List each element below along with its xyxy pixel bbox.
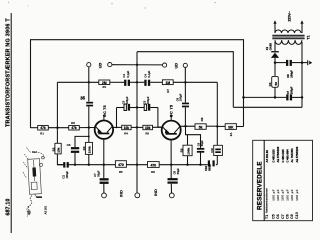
svg-text:100µF: 100µF	[146, 96, 150, 104]
svg-text:TRANSISTORFORSTÆRKER NG 3906: TRANSISTORFORSTÆRKER NG 3906 T	[5, 18, 11, 127]
svg-text:C7: C7	[281, 214, 285, 219]
junction: fuse wire / feed rail	[216, 125, 218, 127]
svg-text:C9: C9	[290, 214, 294, 219]
svg-text:AL 7847/64: AL 7847/64	[290, 148, 294, 163]
svg-text:470: 470	[118, 163, 124, 167]
svg-text:100µF: 100µF	[125, 96, 129, 104]
fuse SIK	[225, 124, 236, 137]
svg-text:47k: 47k	[71, 126, 77, 130]
svg-text:R7: R7	[166, 89, 170, 93]
wire: PSU bus y=97.4	[244, 96, 287, 98]
svg-text:R8: R8	[200, 117, 204, 121]
svg-text:C10: C10	[210, 147, 214, 152]
svg-text:100k: 100k	[187, 148, 191, 155]
svg-text:C3: C3	[67, 143, 71, 147]
capacitor C5 b	[143, 96, 151, 110]
svg-text:OC 75: OC 75	[103, 105, 107, 117]
svg-text:100 µF: 100 µF	[271, 189, 275, 201]
capacitor C4 b	[143, 70, 151, 86]
svg-text:C5: C5	[121, 100, 125, 104]
junction: R9 / PSU bus	[274, 96, 277, 99]
input link wire y=64.8	[112, 64, 163, 66]
svg-text:C5: C5	[143, 100, 147, 104]
svg-text:R9: R9	[179, 148, 183, 152]
svg-text:C10: C10	[204, 165, 208, 170]
svg-text:100 µF: 100 µF	[281, 189, 285, 201]
input terminal 1a	[87, 63, 91, 67]
capacitor C6	[175, 93, 189, 107]
capacitor (right of R24)	[196, 140, 204, 153]
svg-text:RESERVEDELE: RESERVEDELE	[257, 161, 264, 210]
junction: T1 emitter / lower bus	[103, 164, 105, 166]
svg-text:UD: UD	[98, 62, 102, 68]
junction: input link / common rail	[136, 64, 138, 66]
junction: common rail / lower bus	[136, 164, 138, 166]
left margin rule	[10, 13, 12, 233]
junction: coupling wire / common rail	[136, 106, 138, 108]
svg-text:50µF: 50µF	[200, 140, 204, 146]
R6 stems	[88, 136, 90, 142]
svg-text:10k: 10k	[124, 126, 130, 130]
svg-text:C9: C9	[196, 142, 200, 146]
svg-text:A3 161.82: A3 161.82	[265, 150, 269, 163]
resistor R1 (bus)	[99, 80, 110, 89]
svg-text:10k: 10k	[145, 126, 151, 130]
wire: PSU return y=107.3	[233, 106, 302, 108]
output capacitor (T1)	[93, 170, 109, 184]
svg-text:C4: C4	[122, 74, 126, 78]
capacitor C1 (input)	[80, 95, 93, 106]
capacitor C8 (PSU)	[286, 60, 294, 78]
svg-text:R6: R6	[151, 170, 155, 174]
junction: PSU bus / supply loop	[242, 96, 245, 99]
svg-text:47k: 47k	[40, 126, 46, 130]
svg-text:220v~: 220v~	[288, 10, 292, 21]
ground symbol	[307, 60, 312, 65]
resistor R2b	[69, 121, 80, 130]
svg-text:T1: T1	[265, 215, 269, 219]
svg-text:100µF: 100µF	[290, 86, 294, 94]
junction: input 1 stem / signal bus	[88, 81, 90, 83]
wire: top inner supply y=51.7	[137, 52, 233, 108]
svg-text:AE 5783/160: AE 5783/160	[276, 146, 280, 162]
input terminal 1b	[108, 63, 112, 67]
svg-text:100µF: 100µF	[179, 93, 183, 101]
resistor R24 (vertical, T2 emitter side)	[179, 145, 192, 156]
junction: PSU bus / return rail	[301, 96, 304, 99]
svg-text:500µF: 500µF	[208, 163, 212, 171]
svg-text:100 µF: 100 µF	[290, 189, 294, 201]
electrolytic in box C10	[210, 145, 222, 155]
transformer T1	[272, 10, 310, 45]
T1 emitter / output	[103, 139, 105, 179]
svg-text:C 485.5/25: C 485.5/25	[281, 149, 285, 163]
svg-text:C7: C7	[93, 173, 97, 177]
series capacitor on bus (right)	[204, 160, 215, 171]
svg-text:R9: R9	[268, 82, 272, 86]
input terminal 2b	[183, 63, 187, 67]
series resistor on bus (right)	[148, 162, 160, 174]
input terminal 2a	[163, 63, 167, 67]
svg-text:C2: C2	[62, 175, 66, 179]
wire: common rail x=137	[136, 52, 138, 193]
resistor R1b (base feed)	[38, 126, 49, 136]
svg-text:SIK: SIK	[228, 126, 234, 130]
svg-text:100 µF: 100 µF	[276, 189, 280, 201]
T2 emitter / output	[170, 140, 172, 179]
svg-text:AE 5783/160: AE 5783/160	[295, 146, 299, 162]
svg-text:2A: 2A	[229, 133, 233, 137]
svg-text:10k: 10k	[57, 147, 61, 152]
transistor T1 OC75	[95, 105, 113, 139]
supply loop wire (frame)	[31, 40, 244, 128]
svg-text:C8: C8	[172, 170, 176, 174]
junction: signal bus / common rail	[136, 81, 138, 83]
junction: T2 collector / C6	[184, 125, 186, 127]
svg-text:C4: C4	[143, 74, 147, 78]
junction: diode output node	[274, 61, 277, 64]
wire: rectifier rail x=275	[274, 46, 276, 52]
right feed x=217.3	[216, 82, 218, 145]
secondary winding	[275, 40, 302, 44]
transistor T2 OC75	[162, 105, 181, 140]
resistor R7 (bus)	[162, 80, 173, 93]
svg-text:C 485.4/64: C 485.4/64	[286, 149, 290, 163]
svg-text:687.10: 687.10	[5, 198, 11, 215]
svg-text:R6: R6	[82, 146, 86, 150]
svg-text:C10: C10	[295, 212, 299, 219]
resistor R8	[195, 117, 206, 129]
svg-text:R5: R5	[145, 131, 149, 135]
svg-text:C8: C8	[286, 74, 290, 78]
capacitor C4 a	[122, 70, 130, 86]
svg-text:X1: X1	[265, 46, 269, 50]
svg-text:100µF: 100µF	[65, 171, 69, 179]
junction: input 2 stem / signal bus	[184, 81, 186, 83]
junction: T2 emitter / lower bus	[170, 164, 172, 166]
C6 lower branch	[186, 126, 201, 148]
junction: T1 collector / C5 loop	[116, 127, 118, 129]
input 2 stem x=185.4	[184, 68, 186, 103]
R24 stems	[187, 135, 189, 145]
resistor R2 (vertical)	[51, 143, 61, 154]
svg-text:T1: T1	[307, 35, 311, 39]
wire: transformer right rail x=302	[301, 46, 303, 108]
resistor R6 (vertical)	[82, 142, 93, 154]
capacitor C7 (PSU)	[286, 86, 294, 100]
T2 collector wire y=126.2	[181, 125, 195, 127]
T1 collector wire	[113, 126, 122, 128]
junction: C1 / T1 base	[88, 126, 90, 128]
svg-text:C 485.5/25: C 485.5/25	[271, 149, 275, 163]
input 1 stem x=88.8	[88, 67, 90, 102]
svg-text:C6: C6	[276, 214, 280, 219]
svg-text:100 µF: 100 µF	[295, 189, 299, 201]
svg-text:100k: 100k	[88, 146, 92, 153]
output capacitor (T2)	[168, 168, 180, 184]
svg-text:IND: IND	[119, 190, 124, 197]
svg-text:IND: IND	[153, 189, 158, 196]
junction: C8 / ground / transformer rail	[301, 61, 304, 64]
svg-text:R2: R2	[51, 147, 55, 151]
svg-text:50µF: 50µF	[96, 170, 100, 177]
svg-text:56: 56	[274, 82, 278, 86]
junction: C3 branch node	[88, 135, 90, 137]
diode X1	[265, 43, 279, 58]
svg-text:C7: C7	[286, 90, 290, 94]
series capacitor on bus (left)	[62, 162, 70, 179]
svg-text:5k: 5k	[199, 126, 203, 130]
capacitor C3	[67, 143, 80, 153]
junction: R3-R4 / common rail	[136, 126, 138, 128]
capacitor C5 a	[121, 96, 130, 110]
svg-text:1M: 1M	[166, 81, 171, 85]
pickup connector sketch (dashed)	[23, 148, 48, 217]
svg-text:Netstrømtransformer: Netstrømtransformer	[265, 188, 269, 213]
svg-text:R1: R1	[103, 85, 107, 89]
svg-text:100µF: 100µF	[290, 70, 294, 78]
svg-text:A3 161: A3 161	[44, 205, 48, 214]
svg-text:C8: C8	[286, 214, 290, 219]
T1 base wire y=127.6	[31, 127, 38, 129]
x=57.4 branch	[56, 82, 58, 143]
C3 branch	[75, 136, 89, 147]
svg-text:0,1µF: 0,1µF	[147, 70, 151, 77]
svg-text:R1: R1	[40, 131, 44, 135]
mains plug arrows	[274, 24, 276, 34]
primary winding	[275, 30, 301, 33]
core	[272, 34, 304, 36]
svg-text:R4: R4	[124, 131, 128, 135]
signal bus y=82.3	[57, 81, 98, 83]
coupling wire y=107.5	[117, 107, 125, 109]
svg-text:100 µF: 100 µF	[285, 189, 289, 201]
svg-text:R5: R5	[119, 170, 123, 174]
svg-text:470: 470	[150, 163, 156, 167]
junction: R6 / lower bus	[88, 164, 90, 166]
svg-text:0,1µF: 0,1µF	[126, 70, 130, 77]
svg-text:UD: UD	[175, 63, 179, 69]
resistor R4	[143, 125, 153, 135]
svg-text:35: 35	[80, 95, 85, 100]
svg-text:IGA: IGA	[32, 150, 38, 154]
resistor R9 (PSU, vertical)	[268, 76, 278, 87]
svg-text:C5: C5	[271, 214, 275, 219]
svg-text:R3: R3	[71, 121, 75, 125]
junction: C3 / lower bus	[74, 164, 76, 166]
spare parts table RESERVEDELE	[253, 140, 313, 220]
bottom terminals	[102, 193, 107, 198]
svg-text:OA85: OA85	[269, 43, 273, 51]
fuse wire y=126.5	[217, 125, 225, 127]
junction: R24 / lower bus	[186, 164, 188, 166]
junction: C9 / lower bus	[199, 164, 201, 166]
resistor R3	[122, 125, 131, 135]
svg-text:50µF: 50µF	[176, 168, 180, 175]
junction: base feed / R2 branch	[56, 127, 58, 129]
wire: C8 line y=62.6	[275, 62, 286, 64]
svg-text:OC 75: OC 75	[169, 105, 173, 117]
main lower bus y=164.7	[57, 164, 63, 166]
series resistor on bus (left)	[115, 161, 126, 175]
